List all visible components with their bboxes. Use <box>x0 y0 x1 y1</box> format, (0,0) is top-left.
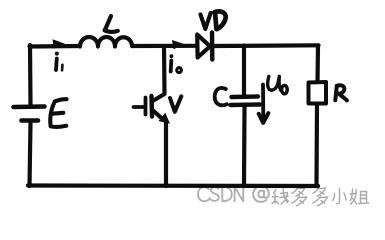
label R <box>335 85 347 100</box>
capacitor C bottom plate <box>231 102 261 107</box>
u0 arrowhead <box>259 113 269 123</box>
transistor V gate plate <box>144 98 148 115</box>
transistor V emitter arrowhead <box>159 113 171 124</box>
watermark char qian <box>272 189 289 204</box>
battery E short plate <box>22 118 39 123</box>
wire: capacitor branch bottom <box>242 107 247 186</box>
watermark char xiao <box>333 189 347 204</box>
transistor V main bar <box>149 96 154 117</box>
watermark char jie <box>350 189 369 204</box>
wire: right vertical above resistor <box>315 46 320 83</box>
transistor V emitter stroke <box>153 110 164 120</box>
label VD <box>201 13 211 29</box>
wire: left vertical (source bottom lead) <box>30 123 31 187</box>
wire: transistor collector branch <box>154 46 165 101</box>
watermark at-sign <box>253 186 269 202</box>
watermark char duo 2 <box>313 187 328 206</box>
battery E long plate <box>14 104 45 109</box>
watermark letter D <box>222 187 232 201</box>
wire: top-left horizontal segment <box>30 44 81 49</box>
label E <box>50 99 66 127</box>
label C (capacitor) <box>215 88 227 105</box>
wire: right vertical below resistor <box>314 104 319 187</box>
wire: bottom horizontal <box>28 183 318 188</box>
watermark letter S <box>210 187 219 201</box>
watermark letter N <box>235 187 244 201</box>
wire: inductor to diode <box>132 44 196 48</box>
u0 arrow shaft <box>261 85 265 120</box>
label V (transistor) <box>170 96 181 112</box>
arrow i1 head <box>53 39 66 49</box>
wire: left vertical (source top lead) <box>28 45 33 105</box>
label L <box>105 16 118 32</box>
diode VD triangle <box>197 35 210 58</box>
wire: emitter lead to bottom <box>164 122 168 186</box>
transistor V gate lead <box>134 105 144 109</box>
label u0 <box>268 77 288 94</box>
arrow i0 head <box>172 40 185 49</box>
label i1 <box>54 59 59 71</box>
watermark letter C <box>198 187 209 201</box>
label i0 <box>169 61 173 72</box>
capacitor C top plate <box>232 94 259 99</box>
resistor R box <box>309 82 327 104</box>
inductor L coil <box>80 37 132 47</box>
watermark char duo 1 <box>292 187 307 206</box>
watermark at-sign inner a <box>258 191 264 198</box>
wire: capacitor branch top <box>242 46 246 96</box>
wire: diode to top-right corner <box>213 43 319 48</box>
diode VD cathode bar <box>210 33 215 60</box>
